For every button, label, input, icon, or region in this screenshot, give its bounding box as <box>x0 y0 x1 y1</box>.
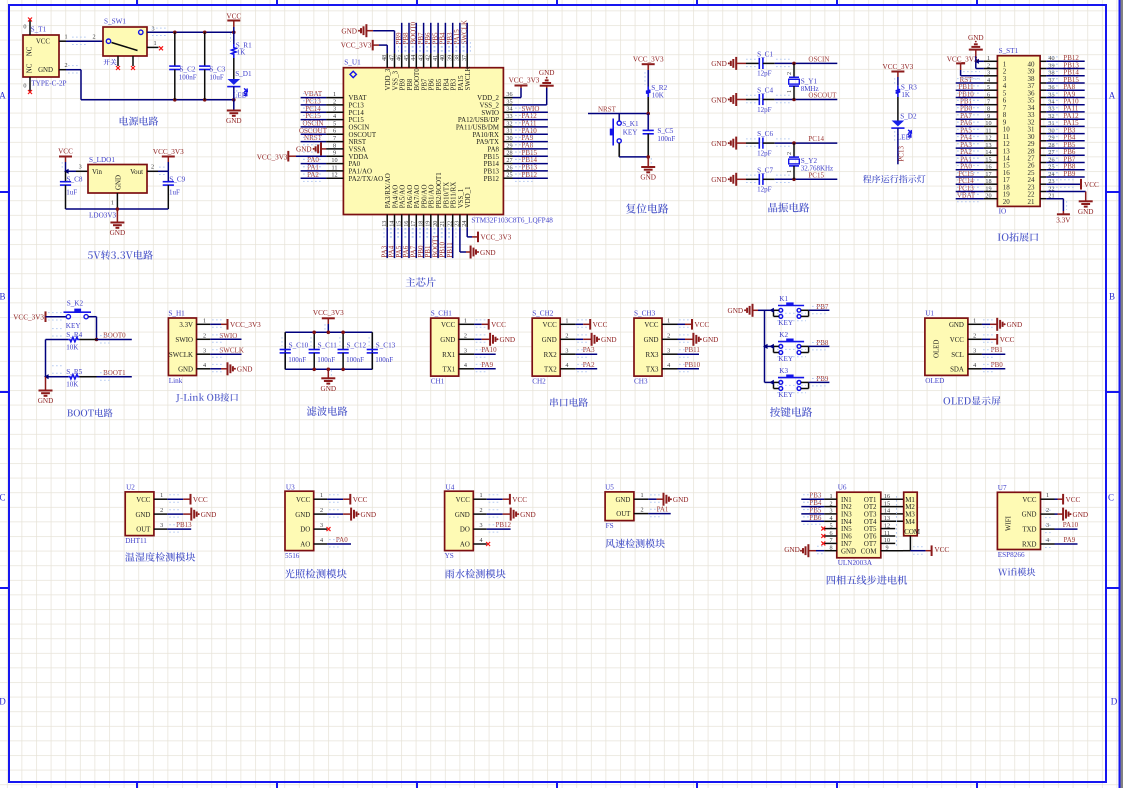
svg-text:S_R5: S_R5 <box>66 368 82 376</box>
svg-text:1: 1 <box>480 492 483 499</box>
svg-text:KEY: KEY <box>778 355 794 363</box>
power GND at S_H1 pin4 <box>210 362 252 375</box>
svg-text:PB3: PB3 <box>451 78 458 90</box>
resistor S_R4 10K <box>46 329 97 352</box>
svg-text:3: 3 <box>464 347 467 354</box>
svg-text:PA0: PA0 <box>349 161 361 168</box>
wire BOOT1 net <box>97 376 132 378</box>
svg-text:GND: GND <box>673 496 689 504</box>
junction LDO gnd <box>116 207 120 211</box>
svg-text:S_C11: S_C11 <box>318 341 338 349</box>
crystal S_Y2 32.768KHz <box>786 143 833 179</box>
svg-text:CH3: CH3 <box>634 378 648 386</box>
wire to GND symbol <box>116 209 118 222</box>
power GND at U6 pin8 <box>784 544 824 557</box>
svg-text:S_H1: S_H1 <box>168 309 185 317</box>
svg-text:PA5/AO: PA5/AO <box>400 185 407 209</box>
svg-text:S_C9: S_C9 <box>169 175 185 183</box>
junction BOOT0 <box>95 338 99 342</box>
svg-text:12pF: 12pF <box>757 70 772 78</box>
wire PA10 net <box>474 353 496 355</box>
junction at C3 top <box>203 31 207 35</box>
svg-text:VCC_3V3: VCC_3V3 <box>313 309 344 317</box>
resistor S_R2 10K <box>646 84 668 100</box>
svg-text:VCC_3V3: VCC_3V3 <box>509 76 540 84</box>
power VCC header pin 23 <box>1046 179 1099 190</box>
junction C3 bottom <box>203 98 207 102</box>
title 光照检测模块 <box>285 569 347 579</box>
svg-text:Vin: Vin <box>92 169 102 176</box>
svg-text:S_SW1: S_SW1 <box>104 18 126 26</box>
svg-text:1: 1 <box>111 200 114 207</box>
bottom rail wire <box>81 99 234 101</box>
svg-text:B: B <box>1109 292 1115 302</box>
svg-text:GND: GND <box>178 366 193 373</box>
regulator S_LDO1 LDO3V3 <box>88 156 147 220</box>
left vertical wire boot divider <box>45 340 47 377</box>
svg-text:GND: GND <box>711 96 727 104</box>
svg-text:VCC_3V3: VCC_3V3 <box>341 41 372 49</box>
switch label kaiguan <box>103 59 116 65</box>
LDO GND pin stub <box>116 193 118 209</box>
svg-text:VCC: VCC <box>226 13 241 21</box>
svg-text:PA15: PA15 <box>458 75 465 91</box>
S_CH1 pins <box>440 318 474 374</box>
svg-text:PA7/AO: PA7/AO <box>414 185 421 209</box>
svg-text:OT6: OT6 <box>864 534 877 541</box>
wire to R2 <box>647 70 649 87</box>
U2 pins <box>135 492 167 534</box>
svg-text:OUT: OUT <box>616 511 631 518</box>
power VCC_3V3 header pin 3 <box>947 55 984 79</box>
svg-text:U2: U2 <box>126 483 135 491</box>
svg-text:PB14: PB14 <box>484 161 500 168</box>
svg-text:VCC: VCC <box>644 322 659 329</box>
key K1 <box>774 295 809 327</box>
power GND at U7 pin2 <box>1045 508 1088 521</box>
svg-text:S_C8: S_C8 <box>67 175 83 183</box>
svg-text:PB1/AO: PB1/AO <box>429 185 436 209</box>
svg-text:KEY: KEY <box>623 128 639 136</box>
svg-text:100nF: 100nF <box>375 356 393 364</box>
svg-text:4: 4 <box>973 362 976 369</box>
svg-text:2: 2 <box>987 62 990 69</box>
capacitor S_C6 12pF <box>746 130 775 157</box>
power GND at mcu VSS_1 <box>460 227 496 258</box>
svg-text:1: 1 <box>64 34 67 41</box>
svg-text:5516: 5516 <box>285 552 300 560</box>
svg-text:3: 3 <box>320 522 323 529</box>
junctions on rails <box>312 331 316 335</box>
module U4 YS body <box>445 483 474 560</box>
svg-text:2: 2 <box>640 507 643 514</box>
svg-text:GND: GND <box>110 229 126 237</box>
ground GND filter <box>321 377 335 379</box>
junction PC15 <box>792 178 796 182</box>
svg-text:1: 1 <box>160 492 163 499</box>
mcu left pin stubs <box>326 98 343 179</box>
svg-text:PB12: PB12 <box>484 176 500 183</box>
svg-text:K3: K3 <box>779 367 788 375</box>
dots near mcu gnd rows <box>303 151 323 153</box>
junction arrow left column <box>44 374 49 379</box>
S_CH2 pins <box>542 318 576 374</box>
svg-text:2: 2 <box>786 152 793 155</box>
svg-text:GND: GND <box>38 397 54 405</box>
junction OSCOUT <box>792 98 796 102</box>
svg-text:GND: GND <box>1078 208 1094 216</box>
svg-text:17: 17 <box>985 171 991 178</box>
svg-text:SWCLK: SWCLK <box>460 20 468 45</box>
svg-text:OT4: OT4 <box>864 519 877 526</box>
svg-text:3.3V: 3.3V <box>1056 217 1071 225</box>
power VCC_3V3 at mcu VDD_1 <box>467 227 511 242</box>
svg-text:GND: GND <box>728 307 744 315</box>
svg-text:WIFI: WIFI <box>1006 515 1013 531</box>
key column vertical wire <box>764 310 766 382</box>
svg-text:VDDA: VDDA <box>349 154 369 161</box>
title Wifi module <box>998 568 1035 576</box>
svg-text:100nF: 100nF <box>657 135 675 143</box>
connector S_CH2 body <box>532 309 560 385</box>
U5 pins <box>615 492 648 518</box>
svg-text:VCC_3V3: VCC_3V3 <box>230 321 261 329</box>
svg-text:PC14: PC14 <box>349 110 365 117</box>
svg-text:GND: GND <box>296 146 312 154</box>
title filter circuit <box>307 406 348 416</box>
capacitor S_C8 1uF <box>60 171 83 209</box>
svg-text:4: 4 <box>203 362 206 369</box>
svg-text:PA3/RX/AO: PA3/RX/AO <box>385 173 392 208</box>
svg-text:1: 1 <box>320 492 323 499</box>
svg-text:BOOT0: BOOT0 <box>103 332 126 340</box>
svg-text:PA8: PA8 <box>487 147 499 154</box>
svg-text:IN5: IN5 <box>841 526 852 533</box>
svg-text:GND: GND <box>295 512 310 519</box>
wire VCC to resistor <box>233 27 235 44</box>
svg-text:OT2: OT2 <box>864 504 877 511</box>
svg-text:SWIO: SWIO <box>175 337 193 344</box>
svg-text:S_C4: S_C4 <box>757 87 773 95</box>
switch S_SW1 <box>103 18 147 57</box>
svg-text:GND: GND <box>784 546 800 554</box>
svg-text:1: 1 <box>640 492 643 499</box>
svg-text:Vout: Vout <box>130 169 143 176</box>
svg-text:3: 3 <box>151 25 154 32</box>
connector S_CH3 body <box>634 309 662 385</box>
S_H1 pin names and stubs <box>169 318 210 374</box>
svg-text:1uF: 1uF <box>66 188 77 196</box>
svg-text:AO: AO <box>460 542 470 549</box>
svg-text:IN1: IN1 <box>841 497 852 504</box>
svg-text:PA6/AO: PA6/AO <box>407 185 414 209</box>
display U1 OLED body <box>925 309 968 385</box>
header left net wires <box>956 76 984 202</box>
wire PA0 net at U3 pin4 <box>327 543 351 545</box>
svg-text:OSCIN: OSCIN <box>349 125 370 132</box>
mcu pin names and numbers <box>331 55 512 227</box>
right rail verticals <box>371 332 373 369</box>
module U3 5516 body <box>285 483 314 560</box>
capacitor S_C7 12pF <box>746 166 775 193</box>
svg-text:VSS_3: VSS_3 <box>392 70 399 90</box>
junction reset gnd <box>646 155 650 159</box>
module U5 FS body <box>605 483 634 530</box>
svg-text:3.3V: 3.3V <box>179 322 193 329</box>
wire PB11 net <box>678 353 700 355</box>
svg-text:PB11/RX: PB11/RX <box>451 182 458 209</box>
svg-text:GND: GND <box>949 322 964 329</box>
power GND at S_CH1 pin2 <box>474 333 515 346</box>
svg-text:S_C7: S_C7 <box>757 166 773 174</box>
svg-text:1uF: 1uF <box>169 188 180 196</box>
junction PC14 <box>792 141 796 145</box>
wire PB8 net <box>809 345 830 347</box>
U7 pins <box>1022 492 1055 548</box>
wire OSCOUT net <box>775 99 838 101</box>
svg-text:VCC: VCC <box>1022 497 1037 504</box>
resistor S_R5 10K <box>46 366 97 389</box>
svg-text:4: 4 <box>667 362 670 369</box>
wire PA2 net <box>576 368 598 370</box>
svg-text:SWCLK: SWCLK <box>465 66 472 90</box>
wire PB1 net <box>982 353 1005 355</box>
title key circuit <box>770 407 812 417</box>
svg-text:0: 0 <box>23 23 26 30</box>
junction arrow key column <box>763 344 768 349</box>
svg-text:PA9/TX: PA9/TX <box>476 139 499 146</box>
wire node to LDO Vin <box>76 170 88 172</box>
svg-text:S_C6: S_C6 <box>757 130 773 138</box>
power GND above header pins 1-2 <box>968 34 984 69</box>
power 3.3V header pin 21 <box>1046 199 1071 225</box>
svg-text:NC: NC <box>27 63 34 73</box>
svg-text:STM32F103C8T6_LQFP48: STM32F103C8T6_LQFP48 <box>471 216 553 224</box>
svg-text:GND: GND <box>1073 511 1089 519</box>
power VCC at U1 pin2 <box>982 334 1015 345</box>
wire bottom loop of LDO <box>66 208 169 210</box>
right page edge strip <box>1121 0 1123 788</box>
svg-text:K1: K1 <box>779 295 788 303</box>
svg-text:GND: GND <box>116 175 123 190</box>
power VCC at S_CH1 pin1 <box>474 319 506 330</box>
svg-text:VBAT: VBAT <box>349 95 368 102</box>
svg-text:PA4/AO: PA4/AO <box>392 185 399 209</box>
svg-text:TYPE-C-2P: TYPE-C-2P <box>31 80 66 88</box>
svg-text:VCC: VCC <box>296 497 311 504</box>
mcu right net wires with labels <box>513 105 548 181</box>
wire PB7 net <box>809 309 830 311</box>
svg-text:COM: COM <box>904 529 920 536</box>
svg-text:ULN2003A: ULN2003A <box>838 559 873 567</box>
svg-text:GND: GND <box>201 511 217 519</box>
power VCC at U7 pin1 <box>1055 494 1081 505</box>
title 5V to 3.3V circuit <box>88 250 153 259</box>
svg-text:3: 3 <box>565 347 568 354</box>
svg-text:CH2: CH2 <box>532 378 546 386</box>
wire PB13 net at U2 pin3 <box>167 528 191 530</box>
svg-text:VSS_1: VSS_1 <box>458 188 465 208</box>
svg-text:U4: U4 <box>446 483 455 491</box>
svg-text:GND: GND <box>480 249 496 257</box>
svg-text:3: 3 <box>987 70 990 77</box>
svg-text:10K: 10K <box>66 343 78 351</box>
title four-phase five-wire stepper motor <box>827 575 907 584</box>
svg-text:14: 14 <box>985 149 991 156</box>
capacitor S_C3 10uF <box>199 32 226 100</box>
svg-text:2: 2 <box>151 164 154 171</box>
svg-text:D: D <box>0 697 6 707</box>
wire SWCLK net <box>210 353 241 355</box>
svg-text:S_D1: S_D1 <box>235 70 252 78</box>
svg-text:12pF: 12pF <box>757 106 772 114</box>
COM wire to VCC <box>881 536 950 556</box>
svg-text:PB7: PB7 <box>816 303 829 311</box>
capacitor S_C2 100nF <box>169 32 197 100</box>
svg-text:PA2/TX/AO: PA2/TX/AO <box>349 176 384 183</box>
wire key K3 to column <box>765 381 774 383</box>
power GND at U3 pin2 <box>327 508 376 521</box>
svg-text:8: 8 <box>987 106 990 113</box>
svg-text:NC: NC <box>27 46 34 56</box>
wire LDO Vout to VCC_3V3 <box>147 170 158 172</box>
svg-text:IN6: IN6 <box>841 534 852 541</box>
svg-text:5: 5 <box>987 84 990 91</box>
header pin numbers inside <box>1003 61 1035 206</box>
svg-text:GND: GND <box>455 512 470 519</box>
svg-text:GND: GND <box>135 512 150 519</box>
svg-text:2: 2 <box>973 333 976 340</box>
svg-text:DO: DO <box>300 527 310 534</box>
svg-text:C: C <box>0 493 6 503</box>
driver U6 ULN2003A body <box>837 484 881 567</box>
svg-text:4: 4 <box>480 537 483 544</box>
wire PC15 net <box>775 178 838 180</box>
svg-text:VDD_3: VDD_3 <box>385 68 392 90</box>
ground GND boot <box>39 390 53 392</box>
svg-text:GND: GND <box>640 174 656 182</box>
svg-text:S_T1: S_T1 <box>31 26 47 34</box>
header right net wires <box>1046 54 1085 180</box>
svg-text:VCC: VCC <box>1084 181 1099 189</box>
svg-text:OSCOUT: OSCOUT <box>349 132 377 139</box>
svg-text:GND: GND <box>968 34 984 42</box>
svg-text:1K: 1K <box>237 49 246 57</box>
svg-text:1: 1 <box>565 318 568 325</box>
svg-text:OSCIN: OSCIN <box>808 55 829 63</box>
svg-text:VCC: VCC <box>36 39 51 46</box>
svg-text:OT5: OT5 <box>864 526 877 533</box>
junction LED bottom <box>232 98 236 102</box>
svg-text:PA11/USB/DM: PA11/USB/DM <box>456 125 499 132</box>
key K2 <box>774 331 809 363</box>
svg-text:KEY: KEY <box>66 322 82 330</box>
wires PB3-PB6 to U6 inputs <box>801 492 824 525</box>
svg-text:PB15: PB15 <box>484 154 500 161</box>
svg-text:LDO3V3: LDO3V3 <box>89 212 117 220</box>
svg-text:VCC_3V3: VCC_3V3 <box>883 63 914 71</box>
svg-text:M1: M1 <box>905 497 915 504</box>
svg-text:S_ST1: S_ST1 <box>999 47 1019 55</box>
resistor S_R1 1K <box>232 42 252 58</box>
svg-text:PA3: PA3 <box>583 346 595 354</box>
svg-text:VCC_3V3: VCC_3V3 <box>153 148 184 156</box>
svg-text:21: 21 <box>1028 198 1036 206</box>
svg-text:3: 3 <box>203 347 206 354</box>
svg-text:GND: GND <box>841 548 856 555</box>
svg-text:SCL: SCL <box>951 352 964 359</box>
wire R1 to LED <box>233 58 235 79</box>
svg-text:VCC_3V3: VCC_3V3 <box>633 55 664 63</box>
wire to gnd filter <box>327 369 329 378</box>
svg-text:100nF: 100nF <box>346 356 364 364</box>
svg-text:2: 2 <box>64 62 67 69</box>
svg-text:LED: LED <box>897 134 911 142</box>
module U7 ESP8266 body <box>997 484 1040 559</box>
title BOOT circuit <box>67 408 113 417</box>
wire PB0 net <box>982 368 1005 370</box>
svg-text:K2: K2 <box>779 331 788 339</box>
svg-text:GND: GND <box>321 385 337 393</box>
svg-text:3: 3 <box>79 164 82 171</box>
wire to gnd boot <box>45 377 47 390</box>
svg-text:100nF: 100nF <box>179 74 197 82</box>
svg-text:1: 1 <box>1046 492 1049 499</box>
S_CH3 pins <box>644 318 678 374</box>
svg-text:M4: M4 <box>905 519 915 526</box>
power GND row PC15 <box>711 173 746 186</box>
svg-text:GND: GND <box>520 511 536 519</box>
svg-text:S_CH2: S_CH2 <box>532 309 554 317</box>
svg-text:3: 3 <box>480 522 483 529</box>
svg-text:FS: FS <box>606 522 614 530</box>
title 温湿度检测模块 <box>125 552 195 561</box>
title OLED display <box>944 396 1001 405</box>
svg-text:10K: 10K <box>66 381 78 389</box>
wire S_T1 VCC to switch <box>66 40 103 42</box>
svg-text:S_C5: S_C5 <box>657 127 673 135</box>
svg-text:S_R4: S_R4 <box>66 331 82 339</box>
svg-text:PA10: PA10 <box>1063 521 1079 529</box>
svg-text:BOOT1: BOOT1 <box>103 369 126 377</box>
svg-text:VCC: VCC <box>353 496 368 504</box>
wire OSCIN net <box>775 62 838 64</box>
wire to GND <box>233 100 235 110</box>
svg-text:1K: 1K <box>901 91 910 99</box>
svg-text:1: 1 <box>203 318 206 325</box>
U3 pins <box>295 492 327 548</box>
svg-text:1: 1 <box>987 55 990 62</box>
svg-text:20: 20 <box>1003 198 1011 206</box>
svg-text:IN7: IN7 <box>841 541 852 548</box>
svg-text:PB13: PB13 <box>484 169 500 176</box>
svg-text:VCC: VCC <box>694 321 709 329</box>
resistor S_R3 1K <box>896 83 918 99</box>
wire PC14 net <box>775 142 838 144</box>
svg-text:NRST: NRST <box>304 134 323 142</box>
svg-text:YS: YS <box>445 552 454 560</box>
no-connect at U3 pin3 <box>327 527 331 531</box>
svg-text:GND: GND <box>361 511 377 519</box>
capacitor S_C10 100nF <box>280 332 309 369</box>
power VCC at S_CH3 pin1 <box>678 319 710 330</box>
svg-text:GND: GND <box>1007 321 1023 329</box>
crystal S_Y1 8MHz <box>786 63 818 99</box>
title reset circuit <box>626 203 668 213</box>
svg-text:VCC: VCC <box>950 337 965 344</box>
svg-text:GND: GND <box>38 67 53 74</box>
wire LED to bottom rail <box>233 87 235 100</box>
